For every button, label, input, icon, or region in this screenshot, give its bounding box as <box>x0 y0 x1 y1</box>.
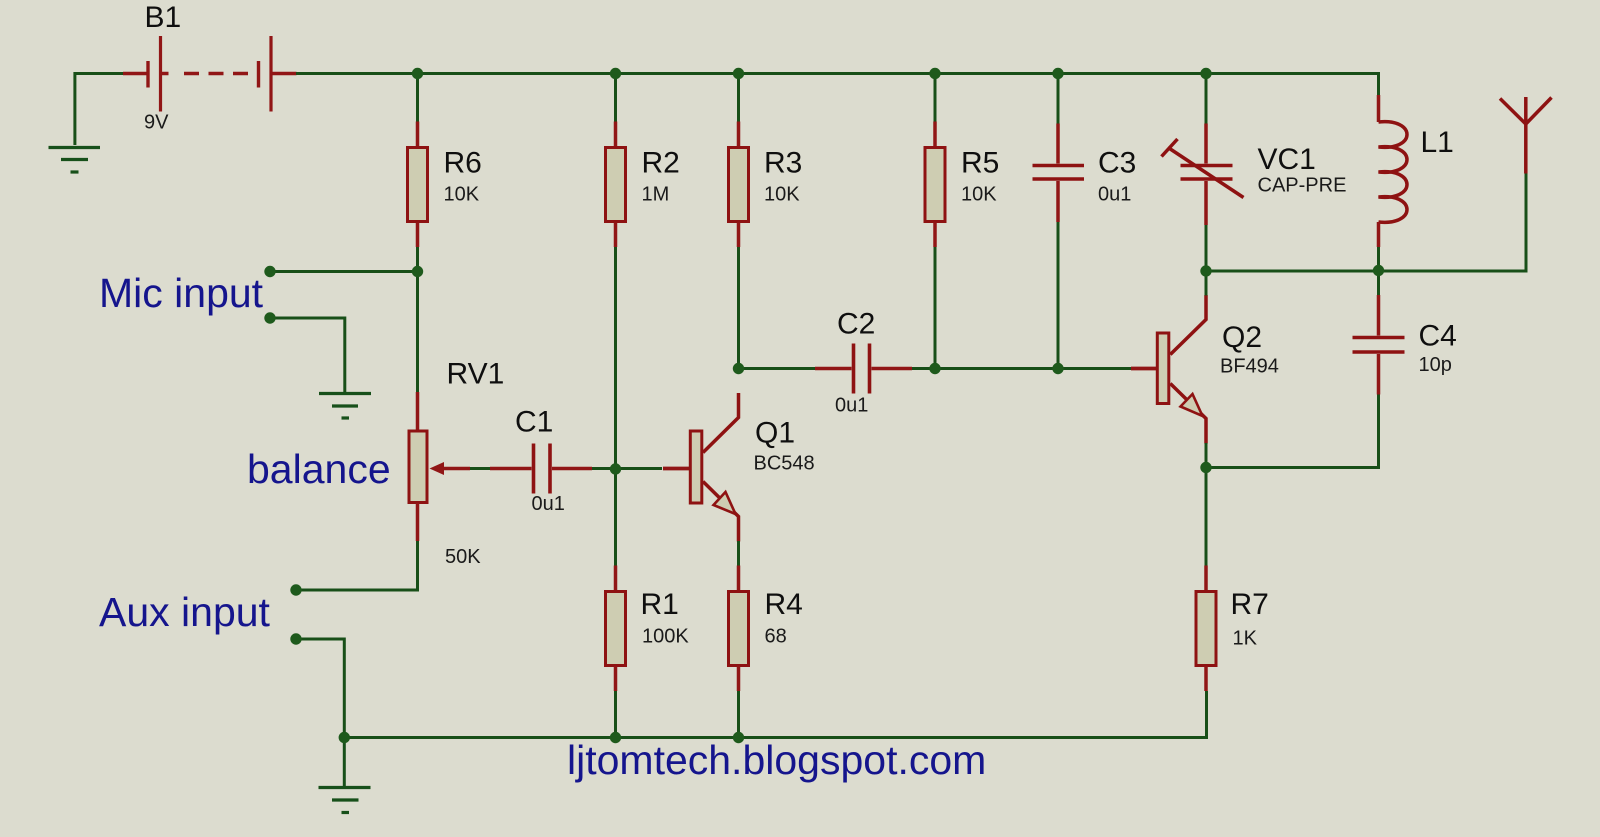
resistor R2 <box>606 122 680 248</box>
svg-text:R2: R2 <box>642 147 680 180</box>
node rail R2 <box>610 68 621 79</box>
variable capacitor VC1 <box>1162 124 1347 226</box>
wire aux input 2 to ground rail <box>296 639 344 738</box>
wire mic input 2 to ground <box>270 318 345 392</box>
node Q1 collector <box>733 363 744 374</box>
svg-text:Q2: Q2 <box>1222 321 1262 354</box>
svg-text:ljtomtech.blogspot.com: ljtomtech.blogspot.com <box>567 737 986 783</box>
wire C3 bottom <box>1057 222 1060 369</box>
wire R1 bottom <box>614 691 617 738</box>
svg-text:Aux input: Aux input <box>99 589 271 635</box>
svg-text:1M: 1M <box>642 184 670 206</box>
wire C2 to Q2 base <box>912 367 1131 370</box>
node C3 bottom <box>1052 363 1063 374</box>
wire R3 top stub <box>737 75 740 122</box>
svg-text:10p: 10p <box>1419 354 1452 376</box>
antenna <box>1500 97 1552 174</box>
resistor R5 <box>925 122 999 248</box>
node C1 out <box>610 463 621 474</box>
resistor R6 <box>408 122 482 248</box>
inductor L1 <box>1379 95 1454 247</box>
wire C4 bottom to Q2 emitter node <box>1206 395 1379 468</box>
wire bottom rail <box>344 691 1206 738</box>
wire R6 bottom to mic node <box>416 247 419 272</box>
wire R2 column down <box>614 247 617 566</box>
svg-text:R4: R4 <box>765 588 803 621</box>
ground (mic input) <box>319 394 371 419</box>
wire C1 to Q1 base node <box>592 467 662 470</box>
svg-text:1K: 1K <box>1233 628 1258 650</box>
resistor R4 <box>729 566 803 692</box>
resistor R1 <box>606 566 690 692</box>
wire R3 bottom to Q1 collector node <box>737 247 740 369</box>
node rail C3 <box>1052 68 1063 79</box>
wire Q1 collector to C2 <box>739 367 816 370</box>
wire R4 bottom <box>737 691 740 738</box>
wire top rail <box>296 74 1379 96</box>
node bottom rail R1 <box>610 732 621 743</box>
wire C3 top stub <box>1057 75 1060 124</box>
battery B1 <box>123 36 297 112</box>
svg-text:0u1: 0u1 <box>532 493 565 515</box>
svg-text:100K: 100K <box>642 626 689 648</box>
svg-text:C3: C3 <box>1098 147 1136 180</box>
capacitor C2 <box>815 308 912 417</box>
svg-text:R7: R7 <box>1231 588 1269 621</box>
node rail VC1 <box>1200 68 1211 79</box>
svg-text:Q1: Q1 <box>755 417 795 450</box>
wire R5 bottom <box>934 247 937 369</box>
svg-text:9V: 9V <box>144 112 169 134</box>
svg-text:BF494: BF494 <box>1220 356 1279 378</box>
node Q2 emitter <box>1200 462 1211 473</box>
ground (aux / bottom rail) <box>319 738 371 813</box>
svg-text:10K: 10K <box>444 184 480 206</box>
wire R2 top stub <box>614 75 617 122</box>
wire RV1 bottom to aux <box>296 541 418 590</box>
resistor R7 <box>1196 566 1269 692</box>
svg-text:R1: R1 <box>641 588 679 621</box>
wire battery left to ground corner <box>75 74 123 146</box>
node mic terminal 2 <box>264 312 275 323</box>
capacitor C4 <box>1353 295 1457 395</box>
potentiometer RV1 <box>409 358 504 569</box>
wire Q2 collector up <box>1205 271 1208 296</box>
capacitor C1 <box>490 406 592 516</box>
wire L1 bottom <box>1377 247 1380 271</box>
wire Q2 emitter down <box>1205 443 1208 468</box>
svg-text:C4: C4 <box>1419 320 1457 353</box>
transistor Q2 <box>1131 295 1279 444</box>
svg-text:68: 68 <box>765 626 787 648</box>
wire R5 top stub <box>934 75 937 122</box>
node aux terminal 1 <box>290 584 301 595</box>
node bottom rail R4 <box>733 732 744 743</box>
svg-text:R3: R3 <box>764 147 802 180</box>
wire VC1 bottom <box>1205 225 1208 271</box>
svg-text:BC548: BC548 <box>754 453 815 475</box>
node mic terminal 1 <box>264 266 275 277</box>
svg-text:0u1: 0u1 <box>835 395 868 417</box>
wire wiper to C1 <box>470 467 491 470</box>
svg-text:CAP-PRE: CAP-PRE <box>1258 175 1347 197</box>
wire mic input 1 <box>270 270 418 273</box>
svg-text:VC1: VC1 <box>1258 143 1316 176</box>
svg-text:0u1: 0u1 <box>1098 184 1131 206</box>
node R5 bottom <box>929 363 940 374</box>
svg-text:10K: 10K <box>764 184 800 206</box>
svg-text:B1: B1 <box>145 1 182 34</box>
wire Q1 emitter to R4 <box>737 541 740 566</box>
node L1 bottom <box>1373 265 1384 276</box>
node mic junction R6 <box>412 266 423 277</box>
svg-text:L1: L1 <box>1421 126 1454 159</box>
svg-text:balance: balance <box>247 446 391 492</box>
svg-text:Mic input: Mic input <box>99 270 264 316</box>
capacitor C3 <box>1033 124 1137 223</box>
resistor R3 <box>729 122 803 248</box>
node bottom rail ground <box>339 732 350 743</box>
wire C4 top <box>1377 271 1380 296</box>
node rail R3 <box>733 68 744 79</box>
svg-text:50K: 50K <box>445 546 481 568</box>
svg-text:C2: C2 <box>837 308 875 341</box>
node rail R6 <box>412 68 423 79</box>
node rail R5 <box>929 68 940 79</box>
svg-text:R6: R6 <box>444 147 482 180</box>
wire VC1 top stub <box>1205 75 1208 124</box>
svg-text:R5: R5 <box>961 147 999 180</box>
svg-text:RV1: RV1 <box>447 358 505 391</box>
node Q2 collector <box>1200 265 1211 276</box>
ground (battery) <box>49 148 101 173</box>
wire R7 top <box>1205 468 1208 566</box>
wire RV1 top <box>416 272 419 393</box>
wire mid right rail to antenna <box>1206 174 1526 272</box>
node aux terminal 2 <box>290 633 301 644</box>
wire R6 top stub <box>416 75 419 122</box>
transistor Q1 <box>663 393 815 542</box>
svg-text:C1: C1 <box>515 406 553 439</box>
svg-text:10K: 10K <box>961 184 997 206</box>
